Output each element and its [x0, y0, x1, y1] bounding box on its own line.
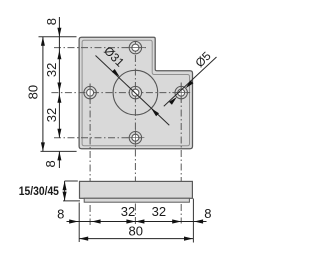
dim line bottom 8-32-32-8 [67, 221, 207, 223]
arrow bottom row down [57, 129, 61, 138]
centerline bottom row [54, 137, 145, 139]
svg-text:8: 8 [43, 160, 58, 167]
svg-text:8: 8 [57, 207, 64, 222]
arrow b-rightcol right [172, 219, 181, 223]
extension tick side top [65, 180, 78, 182]
arrow mid row down [57, 83, 61, 92]
svg-text:8: 8 [204, 206, 211, 221]
arrow b-right-edge left [194, 219, 203, 223]
hole center [129, 86, 141, 98]
arrow plan bottom up [57, 151, 61, 160]
arrow b-center right [126, 219, 135, 223]
arrow b-leftcol left [92, 219, 101, 223]
extension line top [39, 36, 77, 38]
svg-text:80: 80 [129, 224, 143, 239]
hole bottom-center [129, 132, 141, 144]
dim line 80 left [42, 37, 44, 152]
plate chamfer inner line [82, 40, 189, 146]
arrow D31 upper [112, 69, 120, 77]
leader line D31 [96, 56, 170, 126]
svg-text:8: 8 [44, 18, 59, 25]
centerline right column [180, 83, 182, 224]
hole left-middle [84, 86, 96, 98]
svg-text:15/30/45: 15/30/45 [19, 184, 59, 198]
arrow 80-left bottom [41, 142, 45, 151]
centerline top row [54, 47, 148, 49]
extension line plan bottom [41, 150, 77, 152]
arrow b-left-edge right [69, 219, 78, 223]
dim line side height [64, 181, 66, 201]
side view body [80, 181, 193, 198]
hole top-center [129, 41, 141, 53]
extension line bottom-left [78, 203, 80, 243]
extension tick side bottom [63, 200, 80, 202]
side view lip [84, 198, 189, 202]
big circle D31 [113, 70, 158, 115]
centerline left column [89, 84, 91, 226]
dim line bottom 80 [79, 238, 193, 240]
arrow D31 lower [151, 108, 159, 116]
arrow b-center left [135, 219, 144, 223]
extension line bottom-right [192, 199, 194, 243]
arrow 80 left [79, 237, 88, 241]
svg-text:32: 32 [44, 63, 59, 77]
svg-text:32: 32 [121, 204, 135, 219]
centerline middle row [51, 92, 190, 94]
arrow D5 lower [169, 97, 177, 105]
arrow mid row up [57, 94, 61, 103]
plate outline (plan view) [79, 37, 192, 149]
dim line 8/32/32/8 left [58, 17, 60, 138]
arrow D5 upper [186, 80, 194, 88]
arrow side bottom down [63, 192, 67, 201]
svg-text:32: 32 [44, 108, 59, 122]
arrow 80 right [184, 237, 193, 241]
hole right D5 [175, 86, 187, 98]
svg-text:32: 32 [152, 204, 166, 219]
arrow side top up [63, 181, 67, 190]
arrow 8-top down [57, 28, 61, 37]
svg-text:80: 80 [25, 85, 40, 99]
arrow 80-left top [41, 37, 45, 46]
arrow at top row up [57, 50, 61, 59]
centerline center column [134, 42, 136, 225]
hole crosshair ticks [90, 48, 190, 147]
leader line D5 [164, 57, 217, 106]
